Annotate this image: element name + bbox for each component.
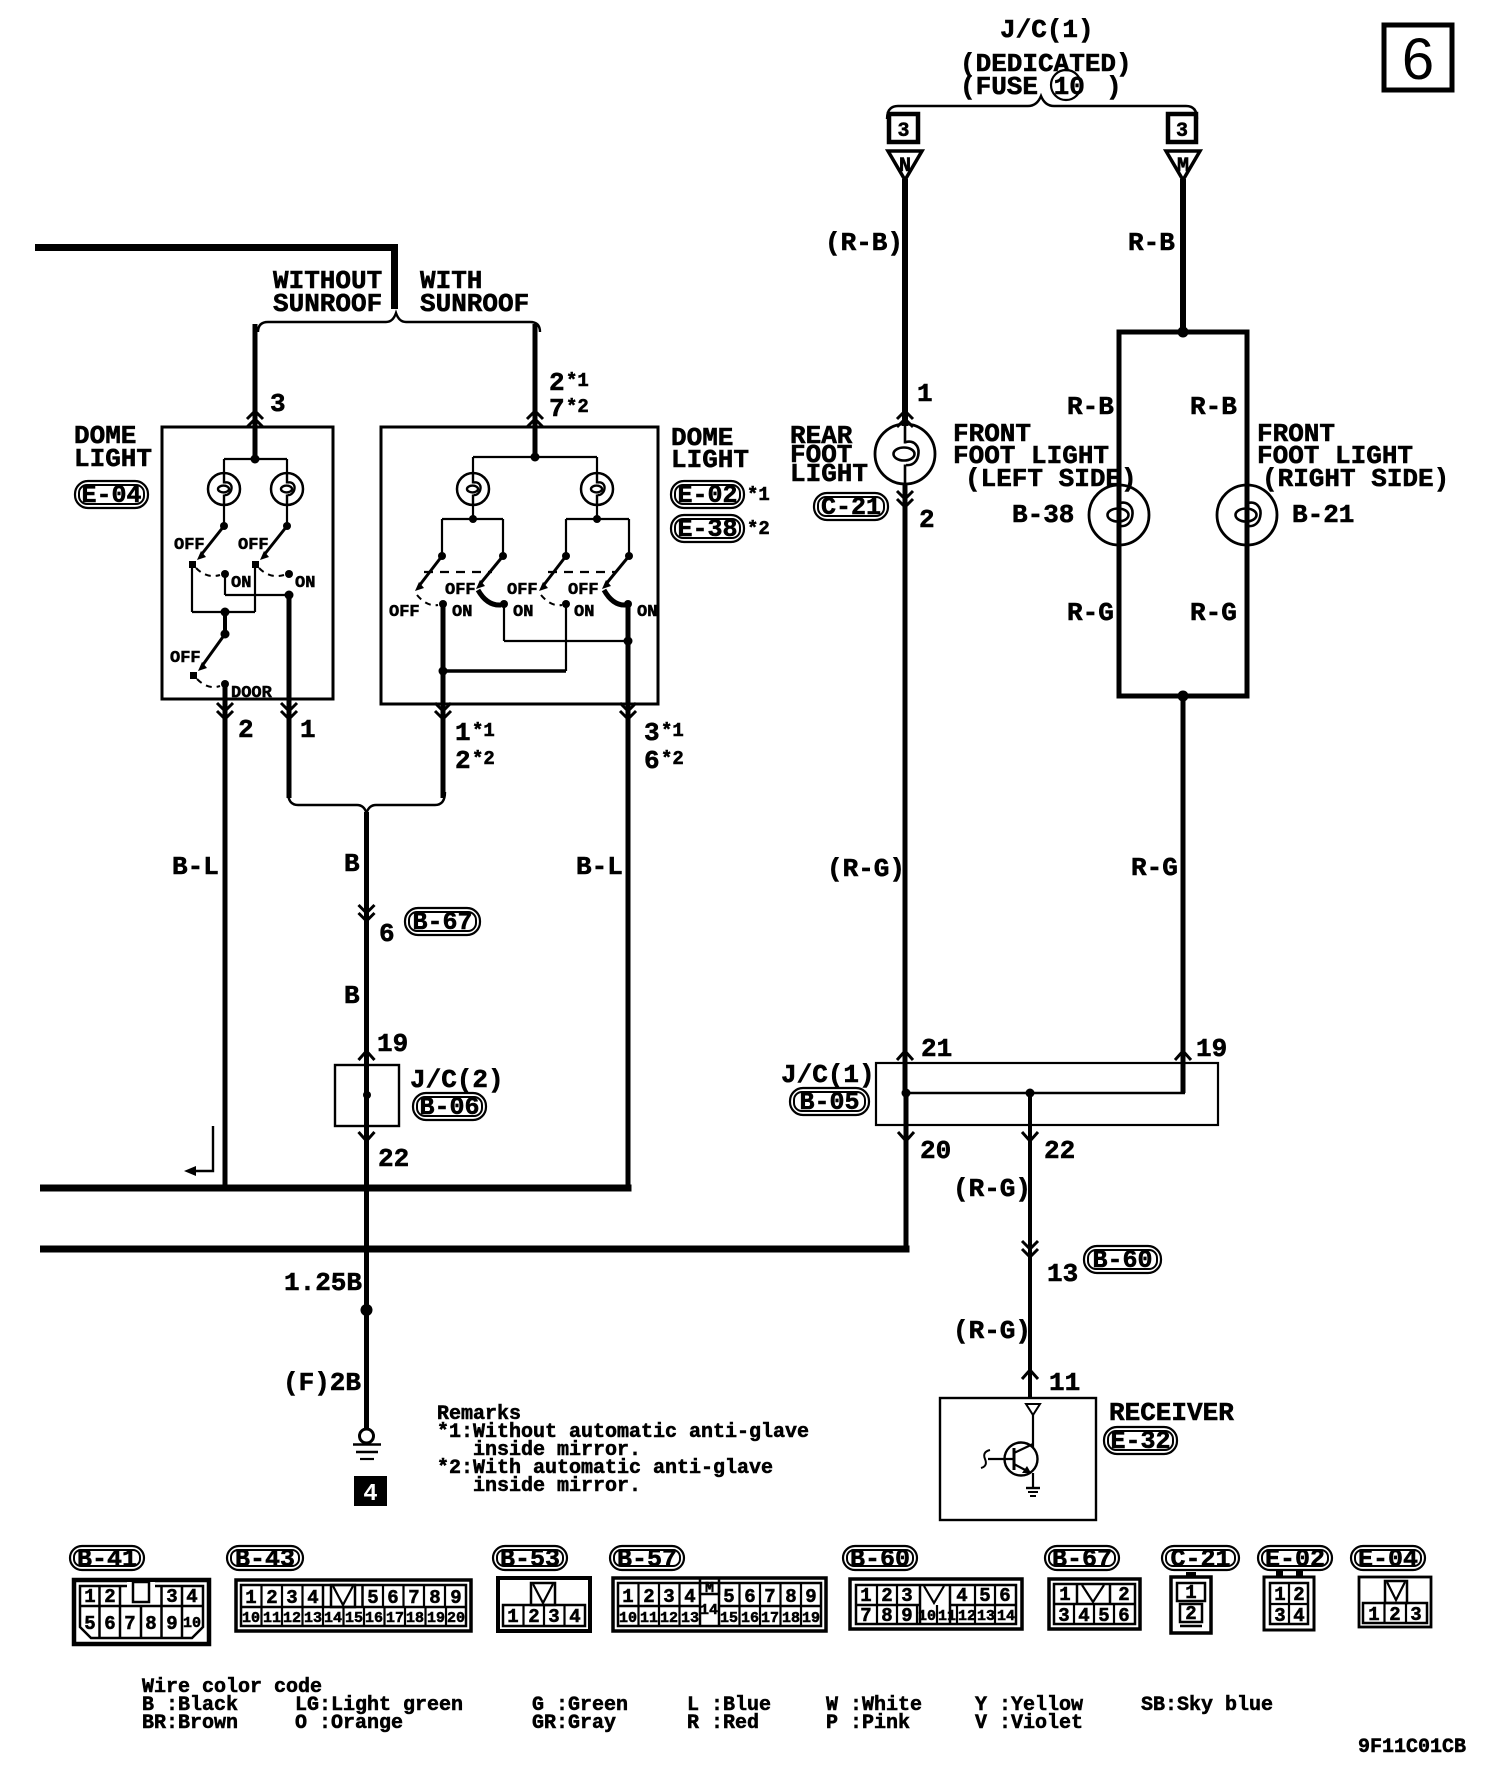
svg-text:6: 6 xyxy=(387,1587,398,1609)
lamp FRONT FOOT LIGHT LEFT B-38 xyxy=(1089,485,1149,545)
connector label (E-32) xyxy=(1104,1427,1177,1456)
svg-text:N: N xyxy=(899,155,911,178)
svg-text:17: 17 xyxy=(761,1610,779,1627)
wire R-G from front foot lights to J/C(1) pin 19 xyxy=(1181,696,1186,1093)
svg-text:8: 8 xyxy=(145,1613,156,1635)
connector view B-60 body xyxy=(850,1579,1022,1629)
dome lamp left bulb xyxy=(457,473,489,505)
svg-text:E-38: E-38 xyxy=(677,515,737,544)
svg-text:5: 5 xyxy=(723,1586,734,1608)
ground bus wire 2 xyxy=(40,1246,910,1253)
svg-text:15: 15 xyxy=(720,1610,738,1627)
svg-text:19: 19 xyxy=(1196,1034,1227,1064)
svg-text:E-02: E-02 xyxy=(1265,1545,1325,1574)
svg-text:3: 3 xyxy=(663,1586,674,1608)
wire from J/C(1) pin 20 down xyxy=(904,1093,909,1253)
svg-text:1: 1 xyxy=(1368,1604,1379,1626)
connector view E-02 label xyxy=(1258,1545,1332,1574)
dome lamp left bulb xyxy=(208,473,240,505)
svg-text:B-67: B-67 xyxy=(1052,1545,1112,1574)
svg-text:R :Red: R :Red xyxy=(687,1712,759,1735)
connector label (E-04) xyxy=(75,481,148,510)
svg-text:3: 3 xyxy=(270,389,286,419)
svg-text:7: 7 xyxy=(408,1587,419,1609)
pin 3*1 label xyxy=(644,718,684,748)
svg-text:4: 4 xyxy=(569,1606,580,1628)
connector view E-04 label xyxy=(1351,1545,1425,1574)
svg-text:B-41: B-41 xyxy=(77,1545,137,1574)
svg-text:13: 13 xyxy=(681,1610,699,1627)
switch 1 throw arc xyxy=(417,595,438,605)
switch 2 pivot xyxy=(283,522,291,530)
node OFF bus junction xyxy=(221,608,230,617)
junction connector J/C(2) box B-06 xyxy=(335,1065,399,1126)
door switch OFF contact xyxy=(190,672,197,679)
wire junction to door switch pivot xyxy=(223,612,227,634)
wire switch1 ON to pin 1*1/2*2 xyxy=(441,604,446,798)
svg-text:16: 16 xyxy=(365,1610,383,1627)
svg-text:9: 9 xyxy=(805,1586,816,1608)
svg-text:4: 4 xyxy=(307,1587,318,1609)
svg-text:15: 15 xyxy=(345,1610,363,1627)
svg-text:4: 4 xyxy=(1293,1605,1304,1627)
junction top xyxy=(1178,327,1189,338)
arrow into pin 3 xyxy=(247,411,263,427)
arrow into J/C(1) pin 19 xyxy=(1175,1051,1191,1060)
label WITHOUT SUNROOF xyxy=(273,266,382,319)
wire left bulb to switches 1-2 xyxy=(442,505,503,553)
component label FRONT FOOT LIGHT (RIGHT SIDE) xyxy=(1257,419,1449,494)
svg-text:4: 4 xyxy=(363,1481,377,1508)
svg-text:1: 1 xyxy=(1185,1582,1196,1604)
svg-text:13: 13 xyxy=(977,1608,995,1625)
svg-text:*1: *1 xyxy=(566,370,589,392)
wire to dome light E-04 pin 3 xyxy=(253,324,258,459)
svg-text:OFF: OFF xyxy=(174,536,205,555)
svg-text:B: B xyxy=(344,981,360,1011)
brace merging pin 1 and pin 1*1 wires xyxy=(288,792,445,813)
arrow out of pin 2 xyxy=(217,703,233,719)
svg-text:3: 3 xyxy=(166,1586,177,1608)
net tag triangle M xyxy=(1166,151,1200,180)
gang dashed link switches 1-2 xyxy=(424,571,492,573)
svg-text:12: 12 xyxy=(958,1608,976,1625)
ground symbol inside receiver xyxy=(1026,1488,1040,1496)
svg-text:2: 2 xyxy=(455,746,471,776)
svg-text:6: 6 xyxy=(1402,27,1434,92)
svg-text:13: 13 xyxy=(1047,1259,1078,1289)
connector view B-43 label xyxy=(227,1545,303,1574)
wire (R-G) from J/C(1) pin 22 to receiver xyxy=(1028,1093,1032,1397)
gang dashed link switches 3-4 xyxy=(548,571,616,573)
svg-text:SUNROOF: SUNROOF xyxy=(273,289,382,319)
connector view B-60 label xyxy=(843,1545,917,1574)
connector view E-04 body xyxy=(1359,1577,1431,1627)
dome lamp right bulb xyxy=(271,473,303,505)
svg-text:2: 2 xyxy=(919,505,935,535)
svg-text:RECEIVER: RECEIVER xyxy=(1109,1398,1234,1428)
svg-text:ON: ON xyxy=(513,603,533,622)
svg-text:*2: *2 xyxy=(661,748,684,770)
pin 7*2 label xyxy=(549,394,589,424)
svg-text:6: 6 xyxy=(104,1613,115,1635)
switch 1 pivot xyxy=(220,522,228,530)
svg-text:LIGHT: LIGHT xyxy=(671,445,749,475)
switch 1 ON contact xyxy=(221,570,229,578)
ground bus wire 1 xyxy=(40,1185,632,1192)
wire right bulb to switches 3-4 xyxy=(566,505,629,553)
wire switch4 ON to pin 3*1/6*2 (B-L) xyxy=(626,604,631,1188)
inter-page connector 3 (right) xyxy=(1168,114,1196,143)
connector label (B-06) xyxy=(413,1093,486,1122)
svg-text:*1: *1 xyxy=(747,484,770,506)
svg-text:18: 18 xyxy=(406,1610,424,1627)
component label DOME LIGHT (left) xyxy=(74,421,152,474)
brace for J/C(1) fuse 10 feed xyxy=(887,96,1197,119)
dome light E-02/E-38 box xyxy=(381,427,658,704)
switch 1 arm xyxy=(415,556,442,591)
node feed junction xyxy=(531,453,540,462)
svg-text:(R-B): (R-B) xyxy=(825,228,903,258)
svg-text:1: 1 xyxy=(300,715,316,745)
svg-text:5: 5 xyxy=(367,1587,378,1609)
switch 1 OFF contact xyxy=(189,561,196,568)
switch 4 ON swoosh xyxy=(604,590,626,605)
wire bulb to switch 1 xyxy=(223,505,225,523)
svg-text:BR:Brown: BR:Brown xyxy=(142,1712,238,1735)
svg-text:B-67: B-67 xyxy=(412,908,472,937)
svg-text:R-B: R-B xyxy=(1128,228,1175,258)
dome lamp right bulb xyxy=(581,473,613,505)
svg-text:10: 10 xyxy=(183,1615,201,1632)
wire R-G from rear foot light to J/C(1) pin 21 xyxy=(903,484,908,1093)
connector view B-67 label xyxy=(1045,1545,1119,1574)
svg-text:12: 12 xyxy=(283,1610,301,1627)
svg-text:7: 7 xyxy=(124,1613,135,1635)
switch 4 ON contact xyxy=(624,600,632,608)
svg-text:*1: *1 xyxy=(661,720,684,742)
connector pass-through arrow 6 xyxy=(359,905,375,921)
svg-text:3: 3 xyxy=(548,1606,559,1628)
svg-text:V :Violet: V :Violet xyxy=(975,1712,1083,1735)
svg-text:(LEFT SIDE): (LEFT SIDE) xyxy=(965,464,1137,494)
arrow out of pin 3*1/6*2 xyxy=(620,703,636,719)
svg-text:OFF: OFF xyxy=(507,581,538,600)
svg-text:2: 2 xyxy=(1118,1584,1129,1606)
svg-text:11: 11 xyxy=(263,1610,281,1627)
svg-text:14: 14 xyxy=(324,1610,342,1627)
feed wire from previous page (thick corner) xyxy=(35,244,398,309)
svg-text:9: 9 xyxy=(901,1605,912,1627)
svg-text:2: 2 xyxy=(266,1587,277,1609)
connector view B-41 label xyxy=(70,1545,144,1574)
front foot light loop box xyxy=(1119,332,1247,696)
svg-text:C-21: C-21 xyxy=(821,493,881,522)
svg-text:1: 1 xyxy=(860,1585,871,1607)
svg-text:OFF: OFF xyxy=(568,581,599,600)
svg-text:11: 11 xyxy=(938,1608,956,1625)
switch 2 ON contact xyxy=(500,600,508,608)
svg-text:R-B: R-B xyxy=(1067,392,1114,422)
pin 2*1 label xyxy=(549,368,589,398)
svg-text:2: 2 xyxy=(238,715,254,745)
svg-text:M: M xyxy=(705,1580,714,1597)
svg-text:9F11C01CB: 9F11C01CB xyxy=(1358,1736,1466,1759)
svg-text:DOOR: DOOR xyxy=(231,684,273,703)
inter-page connector 3 (left) xyxy=(889,114,918,143)
node junction sw2/sw4 xyxy=(624,637,633,646)
svg-text:6: 6 xyxy=(999,1585,1010,1607)
label WITH SUNROOF xyxy=(420,266,529,319)
switch 2 arm xyxy=(476,556,503,589)
connector view C-21 body xyxy=(1171,1572,1211,1633)
door switch pivot xyxy=(221,630,230,639)
arrow out of J/C(1) pin 20 xyxy=(898,1132,914,1141)
svg-text:1: 1 xyxy=(84,1586,95,1608)
svg-text:5: 5 xyxy=(84,1613,95,1635)
pin 2*2 label xyxy=(455,746,495,776)
svg-text:1: 1 xyxy=(245,1587,256,1609)
arrow out of J/C(1) pin 22 xyxy=(1022,1132,1038,1141)
svg-text:B-L: B-L xyxy=(576,852,623,882)
switch 1 pivot xyxy=(438,552,446,560)
svg-text:1.25B: 1.25B xyxy=(284,1268,362,1298)
svg-text:B-05: B-05 xyxy=(799,1088,859,1117)
dome light E-04 box xyxy=(162,427,333,699)
svg-text:B-L: B-L xyxy=(172,852,219,882)
svg-text:21: 21 xyxy=(921,1034,952,1064)
svg-text:20: 20 xyxy=(447,1610,465,1627)
switch 2 ON swoosh xyxy=(478,590,501,605)
switch 4 arm xyxy=(602,556,629,589)
svg-text:6: 6 xyxy=(379,919,395,949)
door switch throw arc xyxy=(197,679,220,687)
svg-text:10: 10 xyxy=(619,1610,637,1627)
lamp FRONT FOOT LIGHT RIGHT B-21 xyxy=(1217,485,1277,545)
door switch arm xyxy=(198,634,225,671)
svg-text:1: 1 xyxy=(1274,1584,1285,1606)
wire to dome light E-02/E-38 pin 2/7 xyxy=(533,324,538,457)
svg-text:6: 6 xyxy=(1118,1605,1129,1627)
connector view B-41 body xyxy=(74,1580,209,1644)
svg-text:LIGHT: LIGHT xyxy=(74,444,152,474)
connector view B-43 body xyxy=(236,1580,471,1631)
svg-text:ON: ON xyxy=(574,603,594,622)
svg-text:5: 5 xyxy=(1098,1605,1109,1627)
svg-text:P :Pink: P :Pink xyxy=(826,1712,910,1735)
wire 1*1 stub xyxy=(441,719,446,798)
svg-text:4: 4 xyxy=(1078,1605,1089,1627)
svg-text:E-32: E-32 xyxy=(1110,1427,1170,1456)
wire sw3 ON to junction xyxy=(443,604,566,671)
svg-text:SB:Sky blue: SB:Sky blue xyxy=(1141,1694,1273,1717)
door switch DOOR contact xyxy=(221,680,229,688)
connector view B-57 body xyxy=(613,1578,826,1631)
svg-text:J/C(1): J/C(1) xyxy=(781,1060,875,1090)
arrow out of pin 2 of rear foot light xyxy=(897,491,913,507)
svg-text:B-57: B-57 xyxy=(617,1545,677,1574)
svg-text:R-B: R-B xyxy=(1190,392,1237,422)
arrow out of pin 1*1/2*2 xyxy=(435,703,451,719)
svg-text:10: 10 xyxy=(918,1608,936,1625)
label J/C(1) (DEDICATED FUSE 10) xyxy=(960,15,1132,102)
node ON bus junction xyxy=(285,591,294,600)
svg-text:OFF: OFF xyxy=(389,603,420,622)
svg-text:19: 19 xyxy=(427,1610,445,1627)
component label DOME LIGHT (right) xyxy=(671,423,749,475)
arrow into pin 1 of rear foot light xyxy=(897,411,913,427)
svg-text:*1: *1 xyxy=(472,720,495,742)
ground reference 4 (black box) xyxy=(354,1476,387,1508)
wire sw2 ON to sw4 wire xyxy=(504,604,628,641)
switch 1 arm xyxy=(197,526,224,560)
switch 2 OFF contact xyxy=(252,561,259,568)
switch 3 arm xyxy=(539,556,566,591)
svg-text:11: 11 xyxy=(1049,1368,1080,1398)
connector pass-through arrow 13 xyxy=(1022,1241,1038,1257)
svg-text:3: 3 xyxy=(1274,1605,1285,1627)
arrow into J/C(2) pin 19 xyxy=(359,1051,375,1060)
svg-text:SUNROOF: SUNROOF xyxy=(420,289,529,319)
svg-text:ON: ON xyxy=(637,603,657,622)
svg-text:16: 16 xyxy=(741,1610,759,1627)
svg-text:B-21: B-21 xyxy=(1292,500,1354,530)
connector label (E-38) *2 xyxy=(671,515,770,544)
arrow into receiver pin 11 xyxy=(1022,1370,1038,1379)
svg-text:4: 4 xyxy=(956,1585,967,1607)
pin 1*1 label xyxy=(455,718,495,748)
net tag triangle N xyxy=(888,151,922,180)
connector label (E-02) *1 xyxy=(671,481,770,510)
svg-text:): ) xyxy=(1106,72,1122,102)
arrow out of pin 1 xyxy=(281,703,297,719)
connector view B-57 label xyxy=(610,1545,684,1574)
svg-text:GR:Gray: GR:Gray xyxy=(532,1712,616,1735)
switch 2 throw arc xyxy=(259,568,284,576)
arrow out of J/C(2) pin 22 xyxy=(359,1132,375,1141)
receiver box E-32 xyxy=(940,1398,1096,1520)
switch 1 throw arc xyxy=(196,568,220,576)
svg-text:E-04: E-04 xyxy=(81,481,141,510)
svg-text:C-21: C-21 xyxy=(1170,1545,1230,1574)
connector label (B-60) xyxy=(1084,1246,1161,1275)
svg-text:B-43: B-43 xyxy=(235,1545,295,1574)
switch 2 ON contact xyxy=(285,570,293,578)
wire color code legend xyxy=(142,1676,1273,1735)
svg-text:2: 2 xyxy=(643,1586,654,1608)
svg-text:(R-G): (R-G) xyxy=(953,1316,1031,1346)
svg-text:*2: *2 xyxy=(566,396,589,418)
wire ON junction to pin 1 xyxy=(287,595,292,798)
wire OFF contacts to door switch xyxy=(192,567,255,612)
arrow into J/C(1) pin 21 xyxy=(897,1051,913,1060)
svg-text:7: 7 xyxy=(764,1586,775,1608)
switch 3 pivot xyxy=(562,552,570,560)
svg-text:ON: ON xyxy=(452,603,472,622)
svg-text:ON: ON xyxy=(231,574,251,593)
svg-text:3: 3 xyxy=(1176,120,1188,143)
svg-text:22: 22 xyxy=(378,1144,409,1174)
svg-text:inside mirror.: inside mirror. xyxy=(473,1475,641,1498)
svg-text:3: 3 xyxy=(644,718,660,748)
component label REAR FOOT LIGHT xyxy=(790,421,868,489)
svg-text:17: 17 xyxy=(386,1610,404,1627)
wire ON contacts to pin 1 xyxy=(225,574,289,595)
svg-text:2: 2 xyxy=(528,1606,539,1628)
wire R-B from triangle N to rear foot light xyxy=(902,179,908,426)
svg-text:5: 5 xyxy=(979,1585,990,1607)
svg-text:(R-G): (R-G) xyxy=(827,854,905,884)
antenna symbol xyxy=(1026,1404,1040,1448)
switch 4 pivot xyxy=(625,552,633,560)
svg-text:2: 2 xyxy=(1185,1603,1196,1625)
svg-text:R-G: R-G xyxy=(1131,853,1178,883)
svg-text:ON: ON xyxy=(295,574,315,593)
svg-text:10: 10 xyxy=(242,1610,260,1627)
connector label (B-05) xyxy=(790,1088,869,1117)
switch 1 ON contact xyxy=(439,600,447,608)
svg-text:O :Orange: O :Orange xyxy=(295,1712,403,1735)
svg-text:1: 1 xyxy=(917,379,933,409)
connector view B-67 body xyxy=(1049,1579,1140,1629)
svg-text:14: 14 xyxy=(700,1602,718,1619)
svg-text:8: 8 xyxy=(785,1586,796,1608)
svg-text:J/C(1): J/C(1) xyxy=(1000,15,1094,45)
svg-text:OFF: OFF xyxy=(170,649,201,668)
page number 6 box xyxy=(1384,25,1452,92)
svg-text:B-38: B-38 xyxy=(1012,500,1074,530)
svg-text:OFF: OFF xyxy=(445,581,476,600)
svg-text:3: 3 xyxy=(1058,1605,1069,1627)
svg-text:2: 2 xyxy=(1293,1584,1304,1606)
svg-text:OFF: OFF xyxy=(238,536,269,555)
svg-text:M: M xyxy=(1177,155,1189,178)
svg-text:3: 3 xyxy=(901,1585,912,1607)
switch 3 ON contact xyxy=(562,600,570,608)
junction connector J/C(1) box B-05 xyxy=(876,1063,1218,1125)
svg-text:R-G: R-G xyxy=(1067,598,1114,628)
svg-text:7: 7 xyxy=(549,394,565,424)
svg-text:B-60: B-60 xyxy=(1092,1246,1152,1275)
switch 2 arm xyxy=(260,526,287,560)
wire to both bulbs xyxy=(224,459,287,474)
svg-text:6: 6 xyxy=(744,1586,755,1608)
svg-text:11: 11 xyxy=(640,1610,658,1627)
wire to both bulbs xyxy=(473,457,597,474)
switch 3 throw arc xyxy=(541,595,562,605)
svg-text:19: 19 xyxy=(377,1029,408,1059)
node: feed junction inside E-04 xyxy=(251,455,260,464)
svg-text:2: 2 xyxy=(1389,1604,1400,1626)
svg-text:(F)2B: (F)2B xyxy=(283,1368,361,1398)
svg-text:(FUSE 10: (FUSE 10 xyxy=(960,72,1085,102)
ground symbol xyxy=(353,1429,381,1459)
svg-text:20: 20 xyxy=(920,1136,951,1166)
svg-text:3: 3 xyxy=(1410,1604,1421,1626)
svg-text:7: 7 xyxy=(860,1605,871,1627)
svg-text:R-G: R-G xyxy=(1190,598,1237,628)
lamp REAR FOOT LIGHT xyxy=(875,424,935,484)
transistor symbol inside receiver xyxy=(981,1443,1038,1489)
svg-text:E-04: E-04 xyxy=(1358,1545,1418,1574)
svg-text:B-06: B-06 xyxy=(419,1093,479,1122)
arrow into pin 2*1/7*2 xyxy=(527,411,543,427)
svg-text:9: 9 xyxy=(450,1587,461,1609)
svg-text:*2: *2 xyxy=(747,518,770,540)
svg-text:2: 2 xyxy=(104,1586,115,1608)
svg-text:J/C(2): J/C(2) xyxy=(410,1065,504,1095)
svg-text:22: 22 xyxy=(1044,1136,1075,1166)
